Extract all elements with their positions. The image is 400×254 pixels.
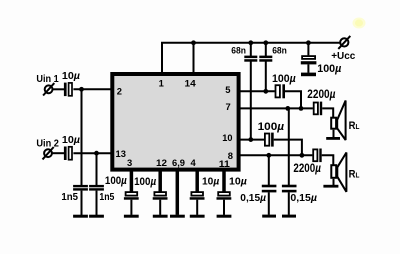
wire pin 3 stub — [130, 170, 134, 192]
svg-text:Uin 1: Uin 1 — [36, 74, 59, 85]
svg-text:RL: RL — [349, 168, 360, 180]
wire terminal Uin2 to C2 — [51, 152, 64, 154]
label 10µ input 1 — [62, 71, 80, 82]
ground below pin 4 cap — [190, 215, 205, 218]
svg-text:100µ: 100µ — [317, 63, 341, 75]
svg-text:68n: 68n — [231, 46, 246, 56]
wire 2200µ #2 to speaker 2 — [322, 155, 334, 164]
wire C2 to pin 13 — [73, 152, 112, 154]
capacitor 100µ pin5 — [276, 84, 286, 98]
pin 6,9 label — [172, 157, 185, 168]
capacitor 100µ pin10 — [265, 133, 274, 147]
label 2200µ #2 — [293, 163, 321, 175]
label Uin 2 — [36, 138, 59, 149]
wire 100µ pin12 to ground — [159, 200, 161, 215]
label 10µ input 2 — [62, 135, 80, 146]
ground below 1n5 #2 — [89, 215, 104, 218]
wire junction down to 1n5 #2 — [96, 153, 98, 185]
ground below supply cap — [301, 73, 316, 77]
input terminal Uin1 — [43, 83, 54, 95]
wire 100µ pin3 to ground — [130, 200, 132, 215]
label 68n #2 — [272, 46, 287, 56]
wire rail down to 68n #1 — [250, 43, 252, 56]
wire 68n #1 down to pin 10 line — [250, 62, 252, 140]
capacitor 10µ pin4 — [190, 192, 205, 200]
pin 7 label — [226, 101, 231, 112]
node junction on Uin2 line — [94, 151, 99, 156]
wire top rail with pin 1 drop — [162, 43, 340, 72]
wire 68n #2 down to pin 5 line — [265, 62, 267, 92]
ground below speaker 2 — [323, 185, 338, 188]
wire C1 to pin 2 — [73, 88, 112, 90]
svg-text:0,15µ: 0,15µ — [240, 193, 266, 204]
wire junction down to 1n5 #1 — [81, 89, 83, 185]
capacitor 1n5 #2 — [89, 185, 104, 191]
node junction rail/pin14 — [191, 40, 196, 45]
capacitor 10µ input 2 — [64, 147, 72, 161]
ground below pin 12 cap — [153, 215, 168, 218]
capacitor 68n #1 — [244, 56, 257, 62]
capacitor 68n #2 — [259, 56, 272, 62]
input terminal Uin2 — [43, 147, 54, 159]
label 0,15µ #2 — [290, 193, 317, 204]
pin 5 label — [225, 84, 230, 95]
wire pin7 junction down to 0.15µ #2 — [288, 108, 290, 185]
ground below pin 3 cap — [124, 215, 139, 218]
wire 100µ pin5 to pin7 node — [285, 91, 301, 108]
wire terminal Uin1 to C1 — [52, 88, 64, 90]
node junction on Uin1 line — [79, 87, 84, 92]
pin 11 label — [219, 158, 230, 169]
speaker 1 — [331, 101, 345, 141]
label 100µ pin10 — [258, 121, 285, 133]
wire pin 4 stub — [195, 170, 199, 192]
wire pin8 junction down to 0.15µ #1 — [268, 155, 270, 185]
wire pin 10 line — [241, 139, 265, 141]
label 68n #1 — [231, 46, 246, 56]
wire pin 6,9 stub to ground — [176, 170, 180, 215]
label 0,15µ #1 — [240, 193, 266, 204]
svg-text:68n: 68n — [272, 46, 287, 56]
pin 10 label — [222, 132, 232, 143]
pin 4 label — [191, 157, 197, 168]
wire rail down to 100µ supply cap — [307, 43, 309, 56]
wire 2200µ #1 to speaker 1 — [322, 108, 333, 117]
ground below 0.15µ #2 — [282, 215, 296, 218]
capacitor 0.15µ #2 — [282, 185, 297, 193]
svg-text:1: 1 — [159, 77, 164, 88]
svg-text:2200µ: 2200µ — [307, 87, 335, 101]
svg-text:100µ: 100µ — [134, 176, 157, 188]
wire 100µ pin10 to pin8 node — [274, 140, 302, 156]
node junction 68n#1/pin10 line — [248, 137, 253, 142]
terminal +Ucc — [338, 36, 350, 49]
svg-text:14: 14 — [185, 77, 197, 88]
capacitor 10µ input 1 — [64, 83, 72, 97]
pin 1 label — [159, 77, 164, 88]
label 100µ supply — [317, 63, 341, 75]
ground below pin 6,9 — [170, 215, 185, 218]
label RL speaker 1 — [349, 120, 360, 132]
svg-text:10µ: 10µ — [229, 177, 247, 188]
label 10µ pin4 — [202, 177, 219, 188]
pin 3 label — [127, 157, 132, 168]
label 100µ pin5 — [272, 73, 296, 85]
wire pin 12 stub — [158, 170, 162, 192]
wire 10µ pin11 to ground — [223, 200, 225, 215]
pin 14 label — [185, 77, 197, 88]
capacitor 10µ pin11 — [217, 192, 232, 200]
svg-text:2: 2 — [117, 86, 122, 97]
node junction pin7/0.15µ#2 — [285, 106, 290, 111]
pin 13 label — [116, 148, 126, 159]
wire pin 11 stub — [222, 170, 226, 192]
svg-text:11: 11 — [219, 158, 230, 169]
ground below speaker 1 — [326, 137, 340, 140]
ground below 0.15µ #1 — [262, 215, 276, 218]
pin 8 label — [228, 150, 233, 161]
label 100µ pin3 — [105, 175, 127, 187]
label RL speaker 2 — [349, 168, 360, 180]
svg-text:13: 13 — [116, 148, 126, 159]
wire pin 7 line — [241, 107, 313, 109]
svg-text:3: 3 — [127, 157, 132, 168]
svg-text:+Ucc: +Ucc — [331, 51, 355, 62]
pin 2 label — [117, 86, 122, 97]
wire rail down to 68n #2 — [265, 43, 267, 56]
node junction 68n#2/pin5 line — [263, 89, 268, 94]
label +Ucc — [331, 51, 355, 62]
wire pin 8 line — [241, 154, 313, 156]
label 10µ pin11 — [229, 177, 247, 188]
capacitor 100µ supply — [301, 56, 317, 64]
capacitor 1n5 #1 — [73, 185, 88, 191]
svg-text:10µ: 10µ — [62, 71, 80, 82]
wire 0.15µ #1 to ground — [268, 192, 270, 214]
svg-text:100µ: 100µ — [258, 121, 285, 133]
label 2200µ #1 — [307, 87, 335, 101]
svg-text:10µ: 10µ — [202, 177, 219, 188]
decorative faint smudge — [353, 18, 366, 29]
capacitor 2200µ #2 — [313, 149, 321, 163]
wire 1n5 #2 to ground — [96, 191, 98, 215]
svg-text:10: 10 — [222, 132, 232, 143]
svg-text:Uin 2: Uin 2 — [36, 138, 59, 149]
wire 10µ pin4 to ground — [196, 200, 198, 215]
svg-text:10µ: 10µ — [62, 135, 80, 146]
node junction 100µ/pin8 line — [300, 153, 305, 158]
speaker 2 — [331, 153, 346, 192]
svg-text:6,9: 6,9 — [172, 157, 185, 168]
node junction rail/68n#2 — [263, 40, 268, 45]
wire pin 14 to rail — [193, 43, 195, 72]
ground below pin 11 cap — [217, 215, 232, 218]
pin 12 label — [156, 157, 167, 168]
svg-text:12: 12 — [156, 157, 167, 168]
node junction rail/68n#1 — [248, 40, 253, 45]
svg-text:4: 4 — [191, 157, 197, 168]
wire supply cap to ground — [307, 64, 309, 72]
capacitor 100µ pin3 — [124, 192, 139, 200]
svg-text:2200µ: 2200µ — [293, 163, 321, 175]
capacitor 100µ pin12 — [153, 192, 168, 200]
svg-text:100µ: 100µ — [105, 175, 127, 187]
ground below 1n5 #1 — [73, 215, 88, 218]
svg-text:1n5: 1n5 — [61, 192, 78, 203]
wire pin 5 line — [241, 90, 275, 92]
label 100µ pin12 — [134, 176, 157, 188]
node junction pin8/0.15µ#1 — [266, 153, 271, 158]
wire 0.15µ #2 to ground — [288, 192, 290, 214]
svg-text:5: 5 — [225, 84, 230, 95]
capacitor 2200µ #1 — [314, 102, 322, 116]
svg-text:0,15µ: 0,15µ — [290, 193, 317, 204]
label 1n5 #1 — [61, 192, 78, 203]
svg-text:1n5: 1n5 — [99, 192, 114, 203]
wire 1n5 #1 to ground — [81, 191, 83, 215]
node junction rail/Ucc cap — [306, 40, 311, 45]
capacitor 0.15µ #1 — [262, 185, 277, 193]
label Uin 1 — [36, 74, 59, 85]
IC U1 body — [112, 74, 238, 170]
svg-text:RL: RL — [349, 120, 360, 132]
svg-text:100µ: 100µ — [272, 73, 296, 85]
svg-text:7: 7 — [226, 101, 231, 112]
label 1n5 #2 — [99, 192, 114, 203]
node junction 100µ/pin7 line — [299, 106, 304, 111]
